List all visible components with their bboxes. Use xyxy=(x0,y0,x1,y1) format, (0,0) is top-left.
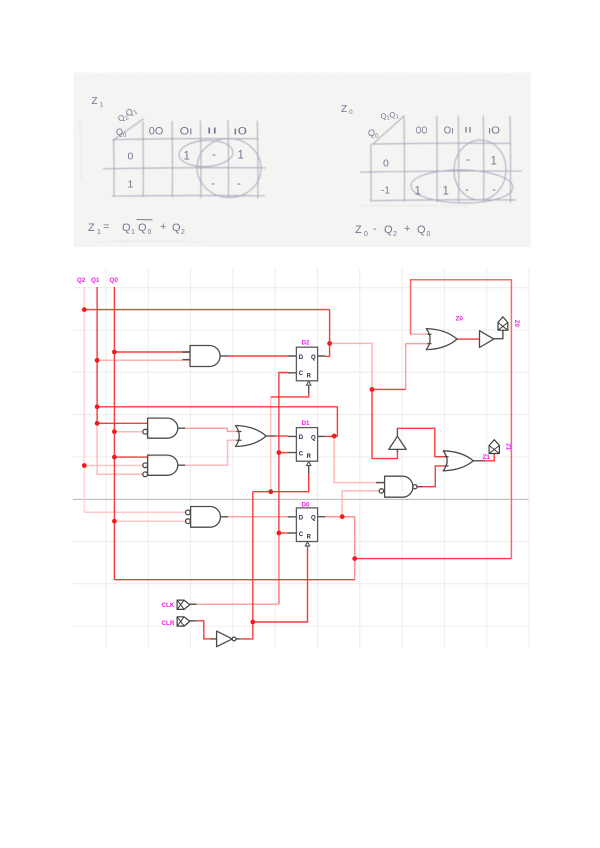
svg-text:1: 1 xyxy=(443,186,449,198)
wire Q0 input rail vertical xyxy=(113,287,115,580)
svg-text:-1: -1 xyxy=(381,186,390,197)
wire D2 Q riser xyxy=(325,310,329,357)
svg-text:1: 1 xyxy=(131,229,135,236)
kmap2 equation Z0 = Q2 + Q0 xyxy=(355,223,431,238)
wire Q2 feedback horizontal from D2Q xyxy=(84,309,329,311)
kmap2 vertical line col2 xyxy=(436,116,438,202)
stub ORZ1 inputs xyxy=(445,457,449,466)
darker seam line xyxy=(73,498,529,500)
negated input bubble A3 lower xyxy=(186,519,191,524)
wire Z0 OR output to buffer xyxy=(458,338,480,340)
reset caret D2 xyxy=(307,381,311,385)
wire AND1 output jog to OR upper input xyxy=(185,428,236,431)
svg-text:D: D xyxy=(299,516,304,522)
stub D0 pins xyxy=(288,517,326,533)
output pin Z0 xyxy=(498,317,508,331)
svg-text:Q: Q xyxy=(311,516,316,522)
scanned paper background xyxy=(74,73,531,248)
flip-flop D2 box xyxy=(296,347,317,381)
kmap2 horizontal bottom line xyxy=(370,200,516,201)
svg-text:D: D xyxy=(299,355,304,361)
node D2 Q branch xyxy=(327,341,332,346)
kmap1 vertical line col3 xyxy=(199,121,202,199)
svg-text:-: - xyxy=(237,178,241,190)
stub OR1 inputs xyxy=(237,431,242,440)
svg-text:0: 0 xyxy=(427,231,431,238)
svg-text:Z: Z xyxy=(355,224,362,236)
node Q1 to AND1 xyxy=(95,421,100,426)
svg-text:Q: Q xyxy=(138,222,147,234)
stub D2 pins xyxy=(288,356,326,373)
wire Q2 rail to AND3 upper input xyxy=(84,511,185,513)
buffer B2 (Z0 output buffer) xyxy=(480,331,494,348)
stub AND2 output xyxy=(178,464,185,466)
wire OR1 output to D1 D xyxy=(275,435,288,437)
wire Q1 input rail vertical xyxy=(96,287,98,423)
pencil smudges xyxy=(80,120,468,242)
svg-text:Q: Q xyxy=(417,224,426,236)
wire Q1 to AND1 upper input xyxy=(97,422,148,424)
svg-text:0: 0 xyxy=(364,231,368,238)
svg-text:1: 1 xyxy=(238,150,244,162)
reset caret D1 xyxy=(307,461,311,465)
negated input bubble NAND lower xyxy=(379,489,383,493)
svg-text:-: - xyxy=(465,184,469,196)
svg-text:=: = xyxy=(103,221,109,233)
NAND gate N1 xyxy=(385,476,413,497)
wire Q2 net lower branch xyxy=(372,388,406,390)
buffer B1 (points up) xyxy=(389,436,406,449)
wire Q0 to AND0 upper input xyxy=(114,351,190,353)
wire reset branch riser (faint) xyxy=(270,397,272,492)
stub NAND output xyxy=(417,486,423,488)
negated input bubble A2 middle xyxy=(143,463,148,468)
kmap1 vertical line col4 xyxy=(227,120,230,198)
svg-text:Oı: Oı xyxy=(180,126,193,138)
svg-text:ıı: ıı xyxy=(464,124,472,136)
wire reset branch to D0 R xyxy=(253,547,308,622)
node Q2 feedback on rail xyxy=(82,307,87,312)
kmap2 vertical line col0 xyxy=(370,145,372,202)
AND gate A0 (Q1 AND Q0 to D2) xyxy=(190,346,220,367)
svg-text:D2: D2 xyxy=(302,340,311,347)
NAND output bubble xyxy=(413,485,417,489)
AND gate A1 (Q1 AND NOT Q0) xyxy=(148,418,178,438)
wire CLK rail to D1 C xyxy=(279,452,288,454)
svg-text:D1: D1 xyxy=(302,420,311,427)
svg-text:2: 2 xyxy=(181,229,185,236)
kmap1 vertical line col0 xyxy=(113,139,116,196)
kmap1 horizontal header underline xyxy=(113,138,259,141)
svg-text:1: 1 xyxy=(491,156,497,168)
NOT output bubble xyxy=(232,637,236,641)
svg-text:Q: Q xyxy=(311,435,316,441)
node Q0 to AND3 xyxy=(112,519,117,524)
stub buffer input xyxy=(396,449,398,452)
node Q0 to AND2 xyxy=(112,455,117,460)
svg-text:Z: Z xyxy=(341,104,347,115)
node Q0 branch to NAND xyxy=(340,514,345,519)
node Q0 to AND0 xyxy=(112,350,117,355)
wire Q1 branch to NAND upper input xyxy=(334,436,384,483)
svg-text:R: R xyxy=(307,374,312,380)
svg-text:Q0: Q0 xyxy=(110,277,119,284)
input pin CLK xyxy=(177,600,190,609)
svg-text:D0: D0 xyxy=(302,501,311,508)
wire Q0 to Z0 feedback branch xyxy=(355,558,512,560)
svg-text:-: - xyxy=(373,223,377,235)
svg-text:Z: Z xyxy=(92,96,98,107)
kmap1 vertical line col2 xyxy=(171,121,173,198)
kmap1 diagonal header line xyxy=(113,119,145,141)
kmap1 loop small ellipse xyxy=(178,139,233,168)
kmap2 loop row1 ellipse xyxy=(411,169,514,204)
svg-text:2: 2 xyxy=(393,231,397,238)
wire Q1 feedback horizontal xyxy=(97,407,337,437)
svg-text:Q2: Q2 xyxy=(77,277,86,284)
stub AND1 output xyxy=(178,427,185,429)
OR gate OZ1 (Z1) xyxy=(443,451,473,471)
svg-text:1: 1 xyxy=(100,102,104,109)
input pin CLR xyxy=(177,617,190,626)
wire CLK rail vertical upper xyxy=(279,373,288,534)
stub D0 R lead xyxy=(307,546,309,548)
svg-text:Q: Q xyxy=(384,224,393,236)
wire Q1 to AND2 lower input xyxy=(97,423,143,474)
stub D1 R lead xyxy=(308,466,310,475)
stub CLR pin lead xyxy=(190,620,197,622)
svg-text:CLK: CLK xyxy=(162,602,175,609)
stub NOT input xyxy=(211,638,217,640)
svg-text:C: C xyxy=(299,452,304,458)
svg-text:ıı: ıı xyxy=(207,125,218,137)
stub buffer output xyxy=(396,428,398,436)
stub NOT output xyxy=(236,638,241,640)
flip-flop D0 box xyxy=(296,508,317,542)
wire Z0 OR upper input from feedback xyxy=(411,333,428,335)
kmap1 equation Z1 = Q1 Q0bar + Q2 xyxy=(88,220,185,237)
OR gate OZ0 (Z0 = Q2 + Q0) xyxy=(426,329,457,350)
kmap2 loop circle cols 11-10 xyxy=(452,139,507,202)
svg-text:-: - xyxy=(466,154,470,166)
kmap1 loop big circle xyxy=(195,136,263,199)
negated input bubble A1 xyxy=(143,429,148,434)
svg-text:0: 0 xyxy=(148,229,152,236)
AND gate A2 (3-input to OR) xyxy=(148,455,178,475)
wire D1 Q to feedback riser xyxy=(325,435,337,437)
wire Q0 branch to NAND lower input xyxy=(342,491,379,517)
stub NAND upper input xyxy=(376,482,385,484)
stub ORZ0 output xyxy=(457,338,458,340)
kmap2 horizontal header underline xyxy=(371,143,511,144)
kmap1 vertical line col1 xyxy=(142,122,145,198)
svg-text:Q: Q xyxy=(311,355,316,361)
wire CLK rail to D0 C xyxy=(279,532,288,534)
wire AND3 output to D0 D input xyxy=(228,516,288,518)
svg-text:1: 1 xyxy=(415,186,421,198)
node Q2 net split xyxy=(370,387,375,392)
stub AND0 inputs xyxy=(183,352,191,360)
wire Q0 to AND2 top input xyxy=(114,456,147,458)
wire Z0 feedback loop xyxy=(411,280,512,559)
stub Z1 pin lead xyxy=(493,453,495,456)
AND gate A3 (to D0) xyxy=(191,507,221,528)
wire D0 Q output to right column xyxy=(325,517,355,580)
flip-flop D1 box xyxy=(296,428,317,462)
wire Q2 net branch D2Q to buffer column xyxy=(330,343,372,389)
svg-text:Z1: Z1 xyxy=(483,454,491,461)
wire Q1 to AND0 lower input xyxy=(97,359,190,361)
wire Q0 to AND1 lower input xyxy=(114,431,142,433)
svg-text:C: C xyxy=(299,371,304,377)
kmap2 vertical line col5 xyxy=(509,116,512,203)
stub ORZ1 output xyxy=(473,460,485,462)
kmap2 diagonal header line xyxy=(373,116,405,145)
wire NAND output to Z1 OR lower input xyxy=(423,466,445,487)
node Q2 to AND2 xyxy=(82,463,87,468)
output pin Z1 xyxy=(489,440,499,454)
grid lines xyxy=(73,268,529,649)
svg-text:CLR: CLR xyxy=(162,620,175,627)
svg-text:Q: Q xyxy=(172,222,181,234)
node Q1 branch to NAND xyxy=(332,434,337,439)
stub Z0 buffer to pin xyxy=(494,330,503,338)
svg-text:Z: Z xyxy=(88,222,95,234)
svg-text:C: C xyxy=(299,532,304,538)
kmap2 vertical line col4 xyxy=(482,116,484,203)
svg-text:D: D xyxy=(299,435,304,441)
kmap2 vertical line col3 xyxy=(457,116,459,203)
wire NOT output riser xyxy=(241,492,253,639)
svg-text:Z0: Z0 xyxy=(513,320,519,328)
node reset split to D0 xyxy=(250,620,255,625)
svg-text:ı0: ı0 xyxy=(233,126,247,138)
negated input bubble A2 bottom xyxy=(143,472,148,477)
svg-text:ıO: ıO xyxy=(488,125,500,137)
node Q0 to AND1 xyxy=(112,429,117,434)
svg-text:1: 1 xyxy=(184,151,190,163)
wire reset rail to D1 R xyxy=(253,474,309,492)
svg-text:R: R xyxy=(307,454,312,460)
node Q1 feedback on rail xyxy=(95,404,100,409)
svg-text:Q: Q xyxy=(122,222,131,234)
node reset split to D2 xyxy=(268,489,273,494)
stub AND0 output xyxy=(221,355,229,357)
node Q1 to AND0 xyxy=(95,358,100,363)
svg-text:Q1: Q1 xyxy=(91,277,100,284)
wire Q0 to AND3 lower input xyxy=(114,520,185,522)
svg-text:+: + xyxy=(160,221,166,233)
negated input bubble A3 upper xyxy=(186,510,191,515)
NOT gate G1 (clock invert) xyxy=(217,631,233,647)
kmap1 horizontal bottom line xyxy=(112,194,265,197)
svg-text:OO: OO xyxy=(416,125,428,137)
wire Z1 OR output to Z1 pin xyxy=(485,454,494,461)
wire Q2 input rail vertical xyxy=(83,287,85,512)
reset caret D0 xyxy=(305,542,309,546)
svg-text:0: 0 xyxy=(128,151,134,163)
svg-text:1: 1 xyxy=(128,179,134,191)
svg-text:0O: 0O xyxy=(149,126,164,138)
kmap1 horizontal mid line xyxy=(103,168,266,169)
stub OR1 output xyxy=(266,435,274,437)
node Q0 to Z0 feedback xyxy=(352,556,357,561)
svg-text:-: - xyxy=(211,178,215,190)
wire AND0 output to D2 D xyxy=(228,355,288,357)
stub ORZ0 inputs xyxy=(428,334,432,343)
stub CLK pin lead xyxy=(190,603,197,605)
svg-text:1: 1 xyxy=(97,229,101,236)
OR gate O1 (to D1 D) xyxy=(235,426,266,447)
svg-text:+: + xyxy=(404,223,410,235)
svg-text:Z1: Z1 xyxy=(505,443,511,451)
kmap1 vertical line col5 xyxy=(256,121,259,199)
wire reset branch to D2 R xyxy=(271,393,309,397)
wire Q2 rail to AND2 middle input xyxy=(84,465,143,467)
wire Q2 net to buffer input xyxy=(372,389,397,458)
node CLK at D1 xyxy=(277,450,282,455)
svg-text:Z0: Z0 xyxy=(456,316,464,323)
kmap2 vertical line col1 xyxy=(403,117,406,202)
wire Q0 rail bottom to D0 column xyxy=(114,579,354,581)
svg-text:0: 0 xyxy=(349,109,353,116)
wire buffer output to Z1 OR upper input xyxy=(397,428,444,456)
stub D2 R lead xyxy=(308,385,310,393)
wire Z0 OR lower input from Q2 net xyxy=(406,344,428,390)
svg-text:R: R xyxy=(307,534,312,540)
svg-text:0: 0 xyxy=(383,158,389,170)
wire CLK pin to clock rail xyxy=(197,603,279,605)
wire CLR pin to NOT gate xyxy=(197,621,212,639)
stub D1 pins xyxy=(288,436,326,452)
svg-text:-: - xyxy=(492,184,496,196)
wire AND2 output to OR lower input xyxy=(185,440,236,465)
stub AND3 output xyxy=(221,516,229,518)
node CLK at D0 xyxy=(277,531,282,536)
svg-text:Oı: Oı xyxy=(444,125,454,137)
svg-text:-: - xyxy=(212,149,216,161)
wire CLK rail vertical lower xyxy=(278,533,280,604)
kmap2 horizontal mid line xyxy=(360,171,522,172)
